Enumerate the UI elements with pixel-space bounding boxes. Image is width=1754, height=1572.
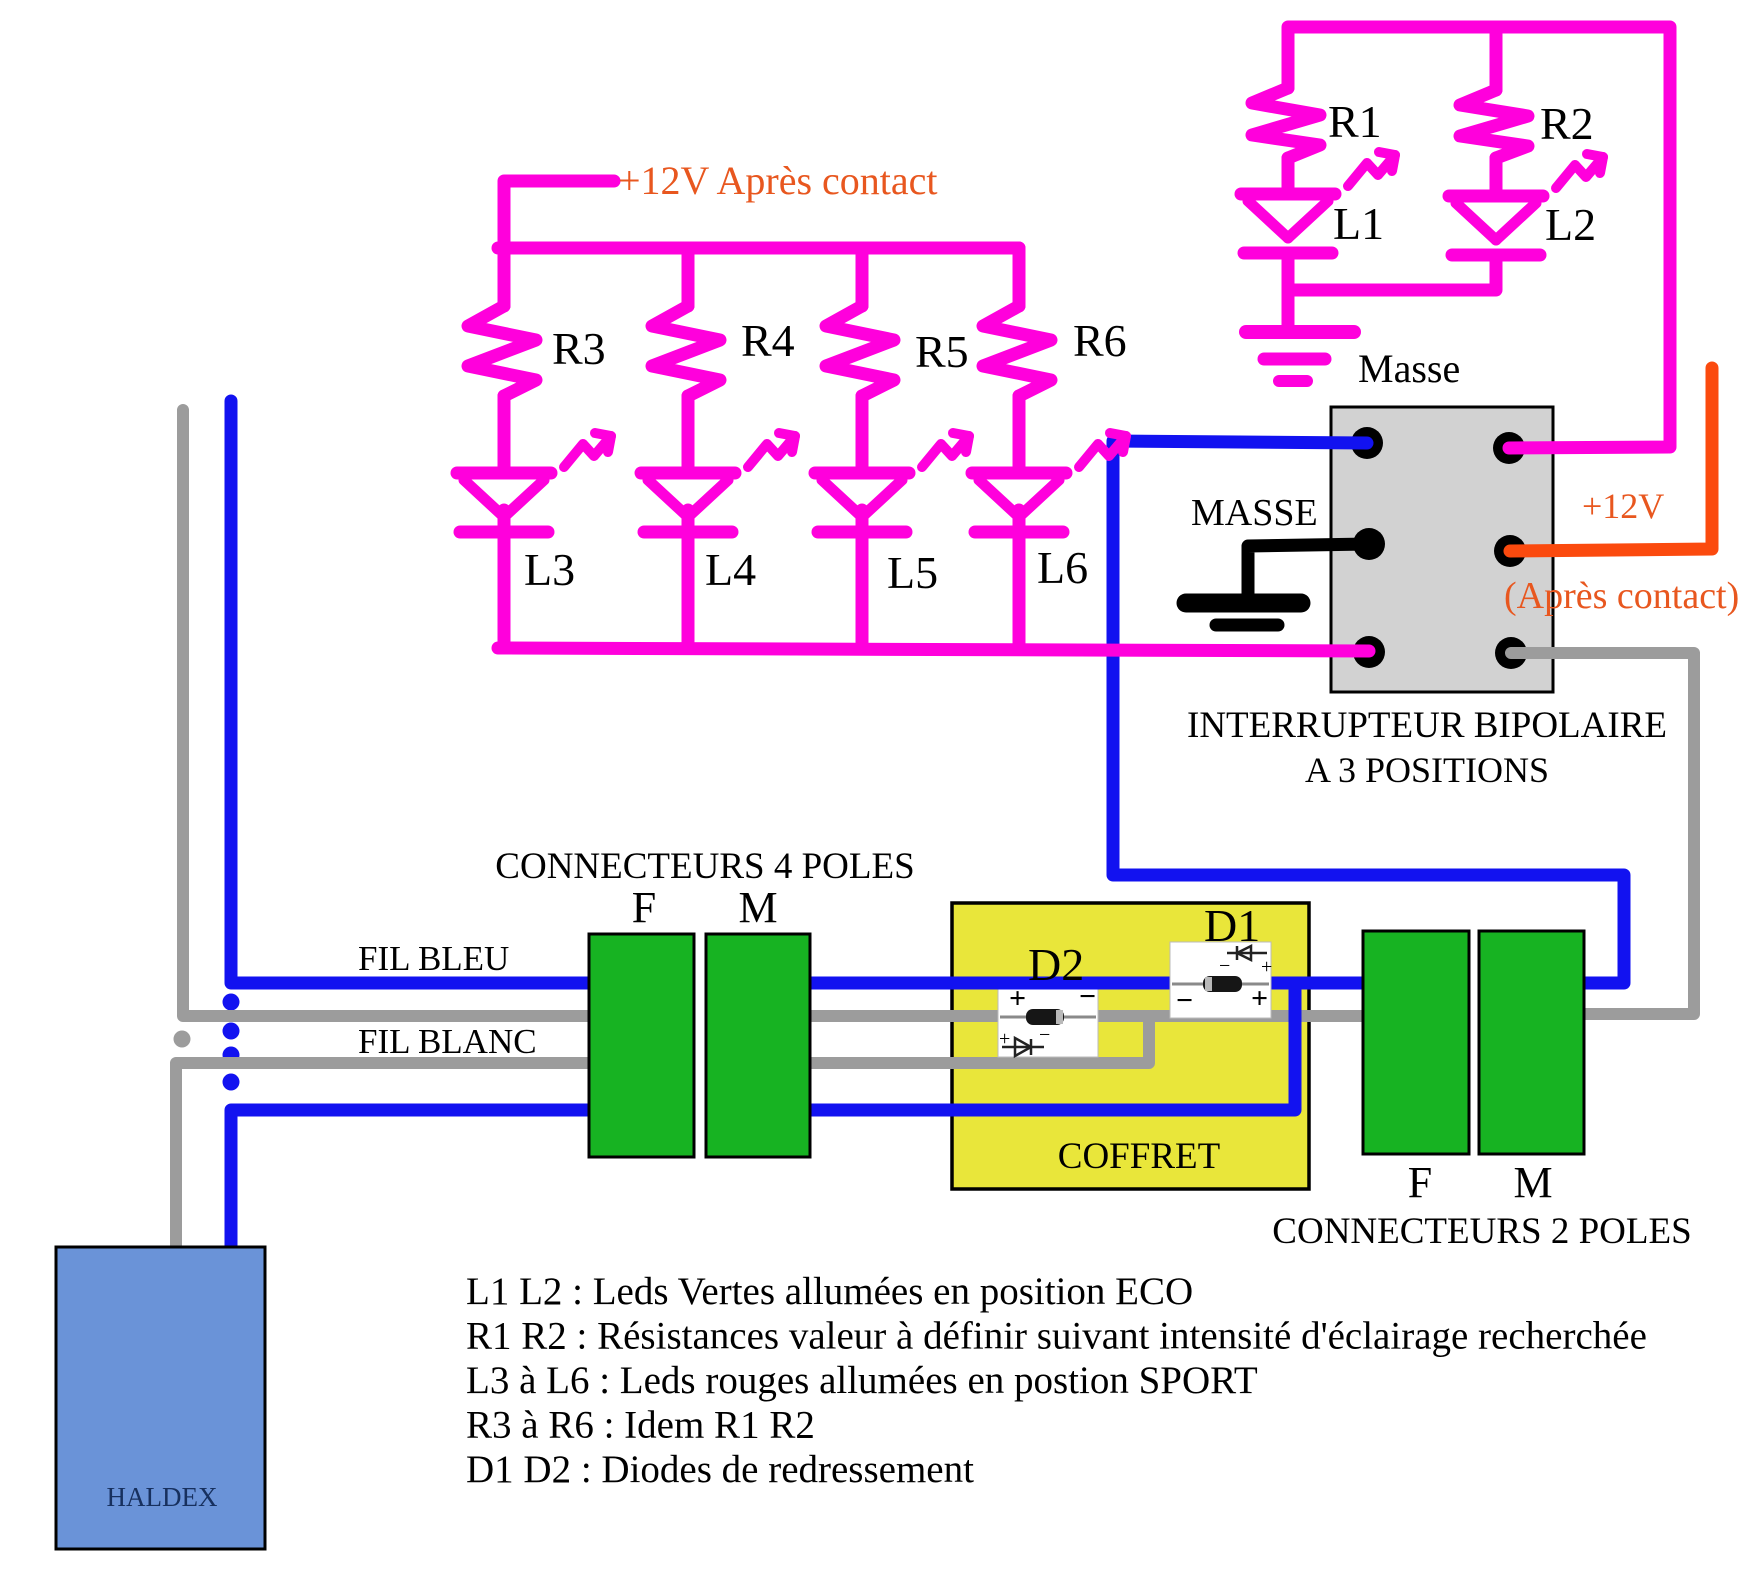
ground symbol Masse (magenta): [1246, 325, 1354, 339]
connector 4 poles F: [589, 934, 694, 1157]
diode D1 lead: [1172, 983, 1269, 986]
svg-text:L1 L2 : Leds Vertes allumées e: L1 L2 : Leds Vertes allumées en position…: [466, 1270, 1193, 1313]
diode D1 module box: [1170, 942, 1271, 1018]
svg-text:CONNECTEURS 4 POLES: CONNECTEURS 4 POLES: [495, 846, 914, 887]
connector 2 poles M: [1479, 931, 1584, 1154]
svg-text:L2: L2: [1545, 199, 1596, 250]
wire: lead L5 to bottom bus: [856, 510, 869, 648]
svg-text:F: F: [1408, 1158, 1432, 1207]
gap between 2-pole connectors: [1467, 927, 1481, 1158]
wire: lead R1 to L1: [1282, 158, 1295, 194]
LED L5 light arrow: [922, 436, 969, 467]
svg-text:MASSE: MASSE: [1191, 492, 1318, 534]
switch terminal 2: [1493, 432, 1525, 464]
LED L3: [457, 467, 551, 480]
wire: branch lead R5: [856, 248, 869, 306]
resistor R5: [826, 306, 894, 396]
wire: lead R5 to L5: [856, 396, 869, 473]
wire: orange +12V apres contact to switch terminal 4: [1510, 368, 1712, 551]
resistor R6: [983, 306, 1051, 396]
wire: bottom bus L1-L2: [1288, 253, 1496, 290]
wire: lead L4 to bottom bus: [682, 510, 695, 648]
wire: blue lower branch from HALDEX through coffret, up to FIL BLEU node: [231, 983, 1295, 1247]
LED L5: [815, 467, 909, 480]
LED L1 light arrow: [1348, 155, 1395, 186]
svg-text:−: −: [1039, 1024, 1050, 1046]
svg-text:COFFRET: COFFRET: [1058, 1136, 1220, 1177]
wire: lead R3 to L3: [498, 396, 511, 473]
LED L2: [1449, 190, 1543, 203]
svg-text:HALDEX: HALDEX: [107, 1482, 218, 1512]
wire: magenta bottom bus to switch terminal 5: [498, 648, 1369, 651]
diode D1 body: [1203, 976, 1242, 992]
switch terminal 5: [1353, 636, 1385, 668]
COFFRET enclosure box: [952, 903, 1309, 1189]
svg-text:M: M: [738, 883, 777, 932]
wire: black MASSE to switch terminal 3: [1248, 544, 1369, 597]
svg-text:L4: L4: [705, 544, 756, 595]
svg-text:FIL BLEU: FIL BLEU: [358, 939, 509, 978]
LED L3 light arrow: [564, 436, 611, 467]
wire: gray FIL BLANC from vertical riser to 2-pole connector: [183, 410, 1363, 1016]
svg-text:L6: L6: [1037, 542, 1088, 593]
svg-text:R5: R5: [915, 326, 969, 377]
ground symbol MASSE (black): [1186, 594, 1301, 613]
LED L6: [972, 467, 1066, 480]
svg-text:D1 D2 : Diodes de redressement: D1 D2 : Diodes de redressement: [466, 1448, 974, 1491]
wire: lead L3 to bottom bus: [498, 510, 511, 648]
svg-text:(Après contact): (Après contact): [1504, 575, 1739, 617]
svg-text:L1: L1: [1333, 198, 1384, 249]
connector 4 poles M: [706, 934, 810, 1157]
LED L6 light arrow: [1079, 436, 1126, 467]
wire: magenta top bus of R3-R6: [498, 242, 1019, 255]
svg-text:+: +: [1261, 956, 1272, 978]
svg-text:+: +: [1251, 982, 1268, 1015]
switch body: INTERRUPTEUR BIPOLAIRE: [1331, 407, 1553, 692]
wire: lead R6 to L6: [1013, 396, 1026, 473]
gap between 4-pole connectors: [692, 930, 708, 1161]
LED L4 light arrow: [748, 436, 795, 467]
diode D2 body: [1026, 1009, 1064, 1025]
wire: blue FIL BLEU after D1 to 2-pole connector F: [1271, 977, 1363, 990]
svg-text:R1: R1: [1328, 96, 1382, 147]
connector 2 poles F: [1363, 931, 1469, 1154]
switch terminal 4: [1494, 535, 1526, 567]
svg-text:+12V: +12V: [1582, 486, 1664, 526]
resistor R2: [1460, 90, 1528, 158]
svg-text:INTERRUPTEUR BIPOLAIRE: INTERRUPTEUR BIPOLAIRE: [1187, 705, 1667, 746]
switch terminal 3: [1353, 528, 1385, 560]
svg-text:Masse: Masse: [1358, 346, 1460, 391]
wire: branch lead R6: [1013, 248, 1026, 306]
svg-text:D2: D2: [1028, 939, 1084, 990]
svg-text:R3 à R6 : Idem R1 R2: R3 à R6 : Idem R1 R2: [466, 1404, 815, 1447]
svg-text:R1 R2 : Résistances valeur à d: R1 R2 : Résistances valeur à définir sui…: [466, 1315, 1647, 1358]
svg-text:L3 à L6 : Leds rouges allumées: L3 à L6 : Leds rouges allumées en postio…: [466, 1359, 1258, 1402]
svg-text:−: −: [1219, 955, 1230, 977]
wire: magenta top bus of R1 R2 and feed to switch terminal 2: [1288, 27, 1670, 448]
wire: branch lead R4: [682, 248, 695, 306]
wire: lead L6 to bottom bus: [1013, 510, 1026, 648]
resistor R1: [1252, 88, 1320, 158]
junction dots blue: [223, 994, 240, 1011]
LED L1: [1241, 188, 1335, 201]
svg-text:R6: R6: [1073, 315, 1127, 366]
svg-text:R4: R4: [741, 315, 795, 366]
svg-text:R3: R3: [552, 323, 606, 374]
switch terminal 6: [1495, 637, 1527, 669]
svg-text:L5: L5: [887, 547, 938, 598]
resistor R4: [652, 306, 720, 396]
HALDEX unit box: [56, 1247, 265, 1549]
svg-text:FIL BLANC: FIL BLANC: [358, 1022, 537, 1061]
diode D2 module box: [998, 984, 1098, 1057]
svg-text:+: +: [999, 1028, 1010, 1050]
wire: blue FIL BLEU from vertical riser through coffret (D1): [231, 401, 1170, 983]
wire: gray from switch terminal 6 to 2-pole connector M: [1511, 653, 1694, 1014]
svg-text:R2: R2: [1540, 98, 1594, 149]
wire: lead R4 to L4: [682, 396, 695, 473]
switch terminal 1: [1351, 427, 1383, 459]
svg-text:F: F: [632, 883, 656, 932]
wire: lead to Masse ground: [1282, 290, 1295, 325]
wire: blue FIL BLEU over D2: [952, 977, 1170, 990]
wire: +12V apres contact stub: [504, 181, 614, 248]
junction dot gray: [174, 1031, 191, 1048]
diode D1 schematic symbol: [1227, 952, 1267, 955]
svg-text:+12V Après contact: +12V Après contact: [618, 158, 938, 203]
diode D2 schematic symbol: [1002, 1046, 1044, 1049]
wire: branch lead R3: [498, 248, 511, 306]
LED L2 light arrow: [1556, 157, 1603, 188]
LED L4: [641, 467, 735, 480]
wire: blue from switch terminal 1 down and around to 2-pole connector M: [1113, 441, 1624, 983]
svg-text:L3: L3: [524, 544, 575, 595]
resistor R3: [468, 306, 536, 396]
svg-text:M: M: [1513, 1158, 1552, 1207]
svg-text:−: −: [1176, 984, 1193, 1017]
svg-text:D1: D1: [1204, 900, 1260, 951]
diode D2 lead: [1000, 1016, 1096, 1019]
wire: R2 branch drop: [1490, 27, 1503, 90]
wire: lead R2 to L2: [1490, 158, 1503, 196]
svg-text:A 3 POSITIONS: A 3 POSITIONS: [1305, 750, 1549, 790]
svg-text:CONNECTEURS 2 POLES: CONNECTEURS 2 POLES: [1272, 1211, 1691, 1252]
wire: gray lower branch to HALDEX: [176, 1017, 1149, 1247]
